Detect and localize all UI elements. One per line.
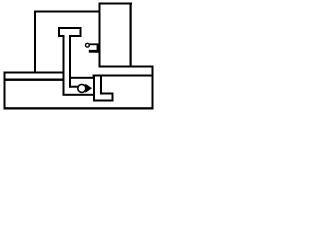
machine housing top wall	[34, 11, 101, 13]
gauge bracket bottom tick	[89, 50, 100, 53]
base lip line right of ram	[69, 77, 95, 79]
press ram left edge	[63, 37, 65, 96]
tower top wall	[99, 3, 133, 5]
gauge mount pad	[97, 44, 101, 53]
tower right wall	[130, 3, 132, 68]
cavity floor under ram	[63, 94, 95, 96]
press plunger cap	[58, 27, 82, 37]
flow arrow	[85, 84, 92, 93]
machine housing left wall	[34, 11, 36, 73]
base bottom wall	[4, 107, 154, 109]
slot shelf H2	[100, 93, 114, 95]
background	[0, 0, 157, 117]
slot floor H3	[93, 100, 114, 102]
gauge bracket top tick	[90, 43, 100, 45]
gauge roller circle	[86, 43, 90, 47]
pump wheel	[78, 84, 86, 92]
nozzle stub from ram to pump	[69, 86, 79, 88]
tower left wall	[99, 3, 101, 67]
press ram right edge	[69, 37, 71, 88]
base right wall	[152, 66, 154, 110]
base left wall	[4, 72, 6, 110]
tower bottom ledge	[99, 66, 154, 68]
base lip line left of ram	[4, 79, 65, 81]
base top right section	[93, 75, 154, 77]
slot wall V3	[112, 93, 114, 102]
slot wall V2	[100, 76, 102, 95]
base table top left	[4, 72, 65, 74]
slot wall V1	[93, 75, 95, 102]
